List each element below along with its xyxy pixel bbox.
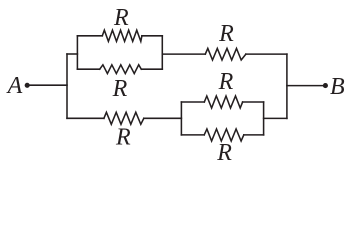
svg-text:R: R — [218, 69, 234, 95]
resistor R6 (bottom group, lower R) — [204, 129, 244, 141]
node A terminal dot — [25, 83, 30, 88]
wire: lead right of R2 — [141, 68, 162, 70]
resistor R1 (top group, upper R) — [102, 30, 142, 41]
wire: bottom group right edge — [263, 102, 265, 135]
wire: right vertical bus — [286, 54, 288, 118]
resistor R3 (top branch series R) — [205, 48, 246, 60]
wire: lead from top group to R3 — [162, 53, 205, 55]
svg-text:R: R — [216, 140, 232, 166]
wire from node A to left junction — [30, 84, 67, 86]
wire: lead from R3 to right bus — [246, 53, 287, 55]
wire: lead right of R6 — [244, 134, 264, 136]
wire: stub from left bus to top parallel group — [67, 53, 77, 55]
wire: lead left of R5 — [181, 101, 204, 103]
svg-text:R: R — [218, 21, 234, 47]
wire: lead from R4 to bottom parallel group — [144, 117, 182, 119]
node B terminal dot — [323, 83, 328, 88]
resistor R2 (top group, lower R) — [100, 65, 142, 74]
wire: stub from bottom group to right bus — [264, 117, 287, 119]
svg-text:A: A — [6, 73, 23, 99]
wire: lead right of R5 — [243, 101, 264, 103]
wire: left vertical bus — [66, 54, 68, 118]
resistor R4 (bottom branch series R) — [104, 112, 144, 124]
wire: lead right of R1 — [142, 35, 162, 37]
svg-text:R: R — [115, 125, 131, 151]
resistor R5 (bottom group, upper R) — [204, 96, 242, 108]
wire: lead left of R2 — [77, 68, 99, 70]
wire: lead left of R1 — [77, 35, 102, 37]
svg-text:R: R — [113, 5, 129, 31]
svg-text:R: R — [112, 76, 128, 102]
wire: lead from left bus to R4 — [67, 117, 104, 119]
svg-text:B: B — [330, 74, 345, 100]
wire: top group left edge — [76, 36, 78, 69]
wire: from right bus to node B — [287, 85, 323, 87]
wire: bottom group left edge — [180, 102, 182, 135]
wire: top group right edge — [161, 36, 163, 69]
wire: lead left of R6 — [181, 134, 204, 136]
